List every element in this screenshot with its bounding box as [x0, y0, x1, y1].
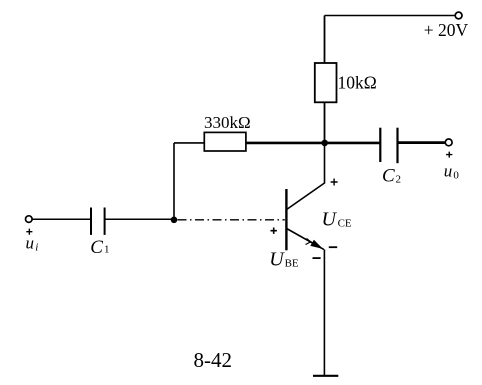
wire top rail: [325, 15, 456, 17]
svg-text:1: 1: [104, 244, 110, 256]
svg-text:BE: BE: [285, 258, 299, 270]
svg-text:330kΩ: 330kΩ: [204, 113, 251, 132]
transistor Q1 collector: [287, 143, 325, 210]
wire R1 to node C: [324, 102, 326, 141]
resistor R2 330k: [204, 132, 246, 151]
node B junction: [171, 217, 178, 224]
terminal ui: [26, 216, 33, 223]
svg-text:0: 0: [453, 170, 459, 182]
svg-text:U: U: [322, 209, 338, 231]
node C junction: [321, 140, 328, 147]
label + base: [271, 228, 277, 234]
transistor Q1 emitter: [287, 229, 324, 250]
emitter arrow: [310, 240, 323, 249]
wire R2 left: [174, 142, 204, 144]
svg-text:C: C: [382, 166, 395, 187]
svg-text:u: u: [444, 162, 453, 181]
terminal u0: [445, 139, 452, 146]
wire dash-dot to base: [178, 219, 285, 221]
wire C1 to node B: [105, 218, 171, 220]
label minus base-emitter: [313, 257, 321, 259]
svg-text:U: U: [269, 249, 285, 271]
svg-text:+ 20V: + 20V: [424, 20, 469, 40]
wire C2 to output: [398, 141, 446, 144]
wire node C to C2: [325, 142, 381, 145]
wire feedback vertical: [173, 143, 175, 220]
svg-text:u: u: [26, 234, 35, 253]
label minus collector-emitter: [329, 246, 337, 248]
wire top rail to R1: [324, 16, 326, 64]
svg-text:C: C: [90, 237, 103, 258]
resistor R1 10k: [315, 63, 337, 102]
label + output: [446, 152, 452, 158]
svg-text:10kΩ: 10kΩ: [338, 73, 377, 93]
label + input: [26, 229, 32, 235]
svg-text:CE: CE: [338, 218, 352, 230]
svg-text:8-42: 8-42: [194, 348, 233, 372]
wire input to C1: [32, 218, 91, 220]
wire R2 right to node C: [246, 142, 322, 145]
wire emitter down: [323, 249, 325, 375]
transistor Q1 base bar: [285, 189, 287, 250]
capacitor C1: [90, 208, 92, 235]
svg-text:i: i: [35, 242, 38, 254]
capacitor C2: [379, 128, 381, 162]
terminal +20V: [455, 12, 462, 19]
svg-text:2: 2: [396, 173, 402, 185]
ground: [313, 375, 338, 377]
label + collector: [331, 179, 338, 186]
